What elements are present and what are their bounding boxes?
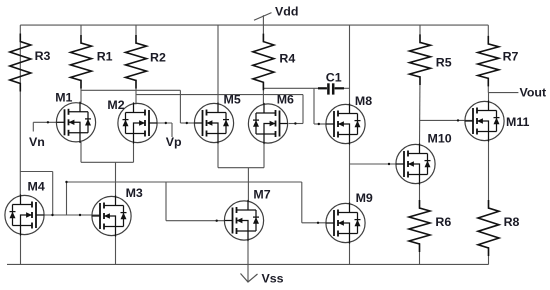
wire R5/M10 node to M11 gate bbox=[420, 119, 473, 121]
label M8 bbox=[355, 94, 372, 108]
svg-text:M3: M3 bbox=[126, 186, 143, 200]
label M4 bbox=[28, 180, 45, 194]
svg-text:M11: M11 bbox=[506, 115, 530, 129]
label R8 bbox=[504, 215, 520, 229]
label M9 bbox=[356, 191, 373, 205]
wire node A: M1 drain to M5 gate bbox=[81, 90, 196, 124]
wire Vss bottom rail bbox=[7, 263, 489, 265]
svg-text:M9: M9 bbox=[356, 191, 373, 205]
wire M11 source to R8 bbox=[488, 140, 490, 209]
resistor R4 bbox=[253, 34, 274, 91]
label M1 bbox=[55, 90, 72, 104]
label R1 bbox=[97, 50, 113, 64]
wire bias tap to M7 gate bbox=[166, 182, 225, 222]
wire M10 source to R6 bbox=[419, 183, 421, 209]
transistor M11 bbox=[465, 100, 504, 141]
wire bias net riser and run to M9 gate bbox=[65, 181, 326, 224]
wire R1 column bbox=[80, 25, 82, 103]
wire M9 source to bottom rail bbox=[349, 242, 351, 264]
resistor R2 bbox=[126, 35, 147, 89]
wire Vout node bbox=[488, 92, 518, 94]
label C1 bbox=[326, 70, 342, 84]
svg-text:M10: M10 bbox=[428, 132, 452, 146]
label M10 bbox=[428, 132, 452, 146]
transistor M2 bbox=[118, 102, 157, 143]
wire M4 source to bottom rail bbox=[20, 235, 22, 265]
label R2 bbox=[150, 50, 166, 64]
svg-text:R3: R3 bbox=[35, 49, 51, 63]
svg-text:Vout: Vout bbox=[520, 85, 547, 99]
svg-text:M6: M6 bbox=[277, 93, 294, 107]
wire Vn input bbox=[33, 121, 57, 131]
transistor M7 bbox=[224, 200, 263, 241]
label R6 bbox=[435, 215, 451, 229]
svg-text:C1: C1 bbox=[326, 70, 342, 84]
wire R6 to bottom rail bbox=[419, 243, 421, 264]
transistor M10 bbox=[396, 143, 435, 184]
wire M3 source to bottom rail bbox=[115, 236, 117, 265]
label R7 bbox=[503, 49, 519, 63]
label R4 bbox=[279, 52, 295, 66]
ground Vss terminal (arrow) bbox=[241, 264, 258, 282]
svg-text:M7: M7 bbox=[253, 188, 270, 202]
svg-text:R2: R2 bbox=[150, 50, 166, 64]
resistor R6 bbox=[409, 200, 430, 252]
svg-text:M8: M8 bbox=[355, 94, 372, 108]
wire R5 column (rail to M10 drain) bbox=[419, 25, 422, 145]
label M5 bbox=[224, 93, 241, 107]
wire M7 source to bottom rail bbox=[247, 240, 249, 264]
wire M8 gate riser bbox=[314, 88, 326, 125]
wire M8 source to M9 drain bbox=[349, 143, 351, 203]
power Vdd terminal bbox=[254, 13, 272, 26]
svg-text:R6: R6 bbox=[435, 215, 451, 229]
label R5 bbox=[436, 55, 452, 69]
svg-text:R7: R7 bbox=[503, 49, 519, 63]
svg-text:R1: R1 bbox=[97, 50, 113, 64]
label M6 bbox=[277, 93, 294, 107]
resistor R1 bbox=[71, 35, 92, 89]
wire M8 source tap to M10 gate bbox=[350, 163, 404, 165]
capacitor C1 bbox=[318, 83, 344, 94]
label M7 bbox=[253, 188, 270, 202]
label Vout bbox=[520, 85, 547, 99]
wire M4 gate feedback to drain column bbox=[20, 172, 52, 216]
wire M8 drain to top rail bbox=[349, 25, 351, 105]
svg-text:R4: R4 bbox=[279, 52, 295, 66]
wire node B: M2 drain to M6 gate bbox=[136, 95, 303, 125]
svg-text:M4: M4 bbox=[28, 180, 45, 194]
transistor M5 bbox=[194, 102, 233, 143]
resistor R7 bbox=[478, 36, 499, 87]
transistor M9 bbox=[326, 202, 365, 243]
label Vn bbox=[29, 135, 45, 149]
svg-text:Vss: Vss bbox=[262, 272, 284, 286]
label Vp bbox=[166, 135, 182, 149]
label M11 bbox=[506, 115, 530, 129]
transistor M6 bbox=[248, 103, 287, 144]
label M2 bbox=[107, 98, 124, 112]
wire Vp input bbox=[150, 122, 173, 137]
transistor M4 bbox=[5, 194, 44, 235]
wire M1 M2 sources tie to M3 drain bbox=[81, 142, 134, 197]
wire M11 drain to Vout node bbox=[488, 93, 490, 102]
label Vdd bbox=[275, 5, 298, 19]
svg-text:Vn: Vn bbox=[29, 135, 45, 149]
svg-text:R5: R5 bbox=[436, 55, 452, 69]
wire R4 node to C1 left plate bbox=[263, 87, 327, 89]
resistor R3 bbox=[10, 34, 31, 92]
label M3 bbox=[126, 186, 143, 200]
wire R8 to bottom rail bbox=[488, 247, 490, 264]
wire Vdd top rail bbox=[20, 24, 488, 26]
svg-text:M1: M1 bbox=[55, 90, 72, 104]
svg-text:Vp: Vp bbox=[166, 135, 182, 149]
wire R4 column (rail to M6 drain) bbox=[262, 25, 264, 104]
wire R2 column bbox=[135, 25, 137, 104]
wire R7 column bbox=[487, 25, 489, 93]
svg-text:R8: R8 bbox=[504, 215, 520, 229]
label Vss bbox=[262, 272, 284, 286]
svg-text:M5: M5 bbox=[224, 93, 241, 107]
transistor M3 bbox=[92, 195, 131, 236]
label R3 bbox=[35, 49, 51, 63]
svg-text:M2: M2 bbox=[107, 98, 124, 112]
transistor M8 bbox=[326, 103, 365, 144]
wire R3 column (rail to M4 drain) bbox=[19, 25, 21, 196]
wire M5 drain to top rail bbox=[217, 25, 219, 104]
resistor R5 bbox=[410, 34, 431, 85]
wire C1 right plate to M8 drain column bbox=[335, 87, 350, 89]
resistor R8 bbox=[478, 200, 499, 256]
transistor M1 bbox=[56, 102, 95, 143]
wire bias net: M4/M3 gates bbox=[36, 214, 100, 216]
svg-text:Vdd: Vdd bbox=[275, 5, 298, 19]
wire M5 M6 sources tie to M7 drain bbox=[218, 142, 264, 201]
